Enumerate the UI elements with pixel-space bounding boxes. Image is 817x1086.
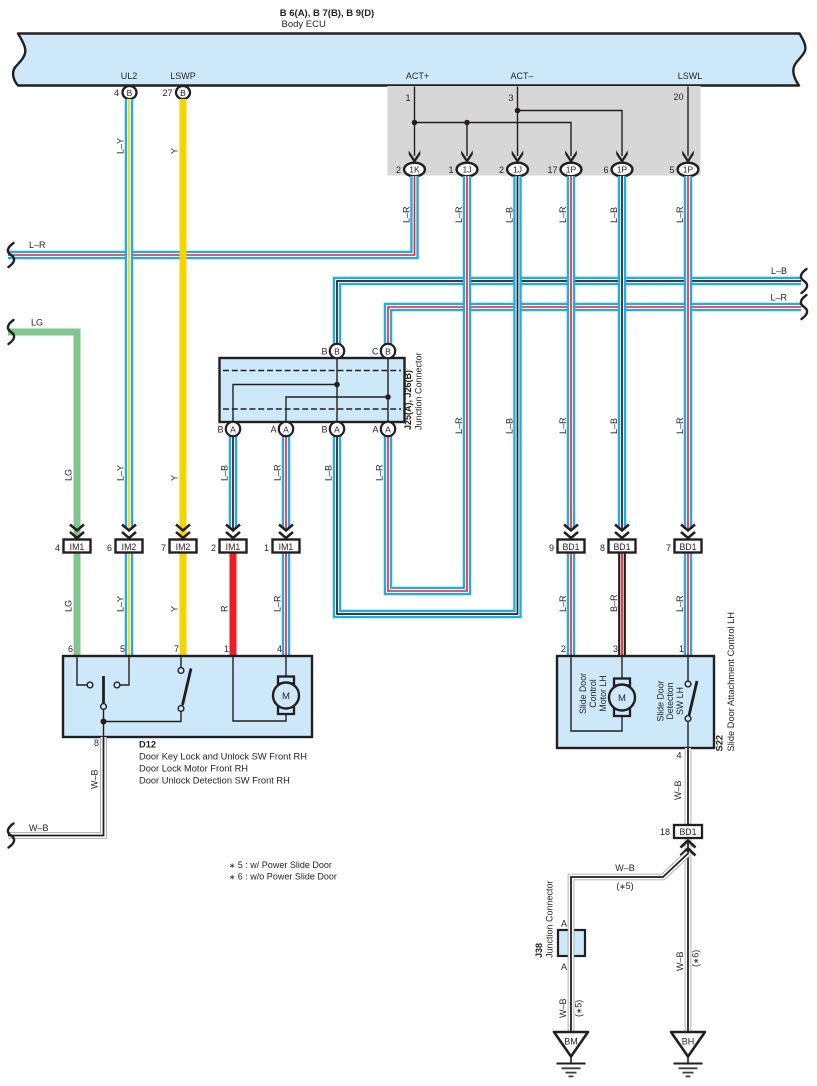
label LG above IM1 xyxy=(64,469,74,481)
label W-B horizontal bottom left xyxy=(29,823,49,833)
svg-text:L–R: L–R xyxy=(29,240,46,250)
junction bottom connector A (A) left xyxy=(270,422,293,436)
svg-text:M: M xyxy=(618,693,626,704)
svg-text:B: B xyxy=(321,425,327,435)
S22 pin number 3 xyxy=(613,644,618,654)
break symbol left LG xyxy=(8,320,14,344)
label L-Y above IM2 xyxy=(116,465,126,481)
wire L-R junction connector to IM1 pin1 xyxy=(282,436,291,529)
svg-text:L–B: L–B xyxy=(324,465,334,481)
ground BM bars xyxy=(557,1064,586,1077)
svg-text:1P: 1P xyxy=(683,165,694,175)
svg-text:LG: LG xyxy=(31,318,43,328)
svg-text:L–R: L–R xyxy=(375,464,385,481)
svg-text:A: A xyxy=(372,425,378,435)
svg-text:IM2: IM2 xyxy=(176,542,191,552)
wire L-B from 1P pin6 down to BD1 xyxy=(618,176,627,529)
svg-text:A: A xyxy=(561,919,567,929)
S22 switch label line1 xyxy=(656,680,666,721)
junction internal branch to pin B(A) xyxy=(233,385,337,430)
svg-text:A: A xyxy=(561,962,567,972)
D12 detection switch lever xyxy=(183,669,192,706)
pin name UL2 xyxy=(121,71,138,81)
svg-text:L–R: L–R xyxy=(770,293,787,303)
svg-text:Control: Control xyxy=(588,679,598,707)
svg-text:L–Y: L–Y xyxy=(116,465,126,481)
svg-text:UL2: UL2 xyxy=(121,71,138,81)
label LG left xyxy=(31,318,43,328)
svg-text:L–R: L–R xyxy=(558,595,568,612)
svg-text:∗ 5 : w/ Power Slide Door: ∗ 5 : w/ Power Slide Door xyxy=(229,860,332,870)
svg-text:Slide Door: Slide Door xyxy=(656,680,666,721)
svg-text:A: A xyxy=(385,424,391,434)
S22 detection switch lower contact xyxy=(685,716,691,722)
connector IM2 pin7 xyxy=(161,525,197,554)
svg-text:SW LH: SW LH xyxy=(675,687,685,715)
svg-text:1: 1 xyxy=(679,644,684,654)
S22 switch label line2 xyxy=(665,682,675,719)
ground BH stub xyxy=(687,1057,689,1064)
svg-text:B: B xyxy=(127,88,133,98)
svg-text:L–B: L–B xyxy=(609,207,619,223)
D12 pin7 internal lead xyxy=(180,657,182,668)
S22 pin2 internal lead to motor xyxy=(571,657,622,731)
svg-text:W–B: W–B xyxy=(675,951,685,971)
svg-text:5: 5 xyxy=(120,644,125,654)
connector BD1 pin8 xyxy=(600,525,636,554)
J38 junction connector box xyxy=(558,930,585,956)
label L-B right xyxy=(771,266,787,276)
S22 pin number 1 xyxy=(679,644,684,654)
svg-text:Junction Connector: Junction Connector xyxy=(414,352,424,430)
svg-text:1: 1 xyxy=(224,644,229,654)
S22 switch label line3 xyxy=(675,687,685,715)
svg-text:4: 4 xyxy=(676,751,681,761)
svg-text:∗ 6 : w/o Power Slide Door: ∗ 6 : w/o Power Slide Door xyxy=(229,872,337,882)
S22 pin3 internal lead xyxy=(621,657,623,679)
up chevron into BD1 pin18 xyxy=(681,841,696,856)
label A below J38 xyxy=(561,962,567,972)
svg-text:4: 4 xyxy=(277,644,282,654)
svg-text:M: M xyxy=(282,691,290,702)
label (*5) right of BM wire xyxy=(574,1000,584,1017)
gray box pin number 1 (ACT+) xyxy=(405,93,410,103)
svg-text:6: 6 xyxy=(68,644,73,654)
D12 key switch pole contact xyxy=(101,704,107,710)
D12 detection switch upper contact xyxy=(178,668,184,674)
wire L-Y from connector B pin4 down xyxy=(125,99,134,529)
label LG below IM1 xyxy=(64,600,74,612)
junction internal wire C-A xyxy=(387,351,389,429)
svg-text:L–R: L–R xyxy=(402,206,412,223)
svg-text:ACT–: ACT– xyxy=(510,71,533,81)
D12 pin number 6 xyxy=(68,644,73,654)
svg-text:6: 6 xyxy=(603,165,608,175)
svg-text:W–B: W–B xyxy=(615,863,635,873)
svg-text:Door Key Lock and Unlock SW Fr: Door Key Lock and Unlock SW Front RH xyxy=(139,752,307,762)
D12 pin number 1 xyxy=(224,644,229,654)
label L-R below BD1 pin7 xyxy=(675,595,685,612)
svg-text:L–R: L–R xyxy=(675,206,685,223)
label W-B left of BH wire xyxy=(675,951,685,971)
wire L-R horizontal from 1K to left edge break xyxy=(8,176,415,255)
label L-B col 1J2 xyxy=(505,207,515,223)
svg-text:Motor LH: Motor LH xyxy=(598,675,608,711)
svg-text:W–B: W–B xyxy=(29,823,49,833)
label A above J38 xyxy=(561,919,567,929)
label B-R below BD1 pin8 xyxy=(609,594,619,612)
svg-text:Body ECU: Body ECU xyxy=(282,19,326,30)
arrow into 1K xyxy=(409,150,421,163)
D12 key switch contact left xyxy=(87,682,93,688)
label J25(A), J26(B) xyxy=(403,370,413,430)
label L-R col 1K xyxy=(402,206,412,223)
svg-text:L–R: L–R xyxy=(558,417,568,434)
D12 motor brush top xyxy=(278,677,294,684)
svg-text:L–B: L–B xyxy=(771,266,787,276)
label L-B junction U wire xyxy=(324,465,334,481)
svg-text:1: 1 xyxy=(405,93,410,103)
svg-text:L–Y: L–Y xyxy=(116,138,126,154)
arrow into 1J pin1 xyxy=(461,150,473,163)
D12 pin number 8 xyxy=(94,738,99,748)
svg-text:LSWP: LSWP xyxy=(170,71,196,81)
svg-text:ACT+: ACT+ xyxy=(406,71,429,81)
S22 detection switch lever xyxy=(689,681,697,716)
label Y upper xyxy=(170,148,180,154)
wire ACT+ stem xyxy=(414,87,416,157)
wire L-R below BD1 to S22 pin2 xyxy=(567,552,576,657)
svg-text:Door Unlock Detection SW Front: Door Unlock Detection SW Front RH xyxy=(139,776,290,786)
label W-B branch horizontal xyxy=(615,863,635,873)
svg-text:B: B xyxy=(217,425,223,435)
svg-text:W–B: W–B xyxy=(90,769,100,789)
svg-text:20: 20 xyxy=(673,92,683,102)
S22 designation label xyxy=(715,612,737,752)
gray connector region xyxy=(388,86,701,176)
svg-text:7: 7 xyxy=(666,543,671,553)
junction connector J25/J26 box xyxy=(220,358,405,422)
D12 internal junction dot xyxy=(101,719,107,725)
svg-text:Y: Y xyxy=(170,148,180,154)
svg-text:B: B xyxy=(180,88,186,98)
svg-text:1P: 1P xyxy=(566,165,577,175)
svg-text:5: 5 xyxy=(669,165,674,175)
ground BH bars xyxy=(674,1064,703,1077)
label L-R mid col 1P5 xyxy=(675,417,685,434)
connector 1P pin6 xyxy=(603,163,632,177)
svg-text:LSWL: LSWL xyxy=(678,71,703,81)
svg-text:A: A xyxy=(283,424,289,434)
svg-text:2: 2 xyxy=(499,165,504,175)
break symbol left W-B xyxy=(8,824,14,848)
svg-text:1: 1 xyxy=(264,543,269,553)
break symbol left L-R xyxy=(8,243,14,267)
junction dot branch 1J xyxy=(464,120,470,126)
svg-text:J25(A), J26(B): J25(A), J26(B) xyxy=(403,370,413,430)
D12 detection switch lower contact xyxy=(178,706,184,712)
svg-text:Y: Y xyxy=(170,606,180,612)
arrow into 1P pin5 xyxy=(682,150,694,163)
label L-R junction U wire xyxy=(375,464,385,481)
wire L-R from 1P pin5 down to BD1 xyxy=(684,176,693,529)
svg-text:L–R: L–R xyxy=(675,595,685,612)
wire Y from connector B pin27 down xyxy=(180,99,187,540)
label W-B rotated at D12 pin8 xyxy=(90,769,100,789)
pin 4 connector B (UL2) xyxy=(114,86,137,99)
svg-text:1J: 1J xyxy=(513,165,522,175)
D12 pin1 internal lead to motor xyxy=(233,657,286,721)
svg-text:W–B: W–B xyxy=(558,998,568,1018)
label L-B mid col 1P6 xyxy=(609,418,619,434)
title Body ECU designators xyxy=(280,8,374,30)
connector BD1 pin7 xyxy=(666,525,702,554)
wire L-R U-shape from 1J pin1 to junction connector xyxy=(388,176,467,591)
break symbol right L-B xyxy=(801,269,807,293)
junction bottom connector B (A) right xyxy=(321,422,344,436)
label L-R below IM1 xyxy=(273,595,283,612)
svg-text:(∗5): (∗5) xyxy=(574,1000,584,1017)
wire L-R below BD1 to S22 pin1 xyxy=(684,552,693,657)
D12 pin6 internal lead xyxy=(77,657,87,685)
label W-B above BD1 pin18 xyxy=(673,780,683,800)
S22 motor M xyxy=(609,685,635,711)
connector 1P pin17 xyxy=(547,163,581,177)
arrow into 1P pin6 xyxy=(616,150,628,163)
svg-text:3: 3 xyxy=(613,644,618,654)
D12 motor M xyxy=(273,683,299,709)
note *6 w/o Power Slide Door xyxy=(229,872,337,882)
wire Y below IM2 to D12 pin7 xyxy=(180,551,187,657)
arrow into 1P pin17 xyxy=(565,150,577,163)
connector IM1 pin1 xyxy=(264,525,300,554)
S22 box xyxy=(557,656,714,748)
arrow into 1J pin2 xyxy=(512,150,524,163)
S22 pin number 2 xyxy=(561,644,566,654)
svg-text:7: 7 xyxy=(161,543,166,553)
label L-B col 1P6 xyxy=(609,207,619,223)
S22 motor label line1 xyxy=(578,673,588,714)
label L-R mid col 1P17 xyxy=(558,417,568,434)
label L-Y upper xyxy=(116,138,126,154)
svg-text:18: 18 xyxy=(660,827,670,837)
svg-text:2: 2 xyxy=(561,644,566,654)
wire L-R from 1P pin17 down to BD1 xyxy=(567,176,576,529)
label L-R mid col 1J1 xyxy=(454,417,464,434)
D12 pin number 4 xyxy=(277,644,282,654)
label L-R right xyxy=(770,293,787,303)
pin name ACT- xyxy=(510,71,533,81)
D12 box xyxy=(63,656,312,737)
label L-R col 1P17 xyxy=(558,206,568,223)
junction bottom connector B (A) left xyxy=(217,422,240,436)
svg-text:BD1: BD1 xyxy=(562,542,579,552)
svg-text:L–R: L–R xyxy=(273,595,283,612)
wire ACT- stem xyxy=(517,87,519,157)
junction bottom connector A (A) right xyxy=(372,422,395,436)
D12 internal wire to unlock detection switch xyxy=(104,712,182,722)
connector 1J pin2 xyxy=(499,163,528,177)
wire branch to 1J pin1 xyxy=(466,123,468,157)
connector IM1 pin4 xyxy=(55,525,91,554)
D12 motor brush bottom xyxy=(278,707,294,714)
svg-text:Door Lock Motor Front RH: Door Lock Motor Front RH xyxy=(139,764,248,774)
ground BM triangle xyxy=(554,1032,588,1057)
S22 pin number 4 xyxy=(676,751,681,761)
label L-R col 1P5 xyxy=(675,206,685,223)
label J38 xyxy=(534,943,544,958)
ground BM stub xyxy=(570,1057,572,1064)
wire L-B U-shape from 1J pin2 to junction connector xyxy=(337,176,518,614)
svg-text:R: R xyxy=(220,605,230,612)
svg-text:LG: LG xyxy=(64,469,74,481)
D12 designation label xyxy=(139,740,307,786)
svg-text:Slide Door Attachment Control: Slide Door Attachment Control LH xyxy=(726,612,736,752)
svg-text:B: B xyxy=(385,346,391,356)
svg-text:C: C xyxy=(372,347,379,357)
svg-text:27: 27 xyxy=(162,88,172,98)
svg-text:A: A xyxy=(230,424,236,434)
connector 1K pin2 xyxy=(396,163,425,177)
wire L-B junction connector to IM1 pin2 xyxy=(229,436,238,529)
svg-text:Slide Door: Slide Door xyxy=(578,673,588,714)
S22 pin1 internal lead xyxy=(687,657,689,681)
svg-text:A: A xyxy=(334,424,340,434)
junction internal dot 1 xyxy=(334,382,340,388)
D12 key switch lever xyxy=(102,676,105,703)
svg-text:L–R: L–R xyxy=(454,417,464,434)
svg-text:4: 4 xyxy=(114,88,119,98)
svg-text:L–B: L–B xyxy=(505,207,515,223)
gray box pin number 3 (ACT-) xyxy=(508,93,513,103)
svg-text:2: 2 xyxy=(396,165,401,175)
label Junction Connector (J38) xyxy=(545,880,555,958)
junction box dashed line upper xyxy=(223,370,401,372)
connector 1J pin1 xyxy=(448,163,477,177)
S22 motor label line3 xyxy=(598,675,608,711)
svg-text:7: 7 xyxy=(174,644,179,654)
label W-B left of BM wire xyxy=(558,998,568,1018)
label Junction Connector (J25/J26) xyxy=(414,352,424,430)
D12 pin5 internal lead xyxy=(121,657,130,685)
label L-R left xyxy=(29,240,46,250)
svg-text:S22: S22 xyxy=(715,735,725,752)
pin 27 connector B (LSWP) xyxy=(162,86,190,99)
svg-text:Junction Connector: Junction Connector xyxy=(545,880,555,958)
wire B-R below BD1 to S22 pin3 xyxy=(618,552,626,657)
svg-text:(∗6): (∗6) xyxy=(691,950,701,967)
wire W-B from chevron down to BH ground xyxy=(685,840,692,1033)
svg-text:LG: LG xyxy=(64,600,74,612)
wire LSWL stem xyxy=(687,87,689,157)
label (*6) right of BH wire xyxy=(691,950,701,967)
D12 pin number 5 xyxy=(120,644,125,654)
svg-text:W–B: W–B xyxy=(673,780,683,800)
svg-text:L–R: L–R xyxy=(675,417,685,434)
wire ACT- branch horizontal xyxy=(518,111,623,157)
junction dot ACT- xyxy=(515,108,521,114)
note *5 w/ Power Slide Door xyxy=(229,860,332,870)
junction internal wire B-B xyxy=(336,351,338,429)
svg-text:B: B xyxy=(321,347,327,357)
wire L-B horizontal to right edge break xyxy=(337,281,801,345)
svg-text:6: 6 xyxy=(107,543,112,553)
svg-text:L–R: L–R xyxy=(558,206,568,223)
svg-text:BH: BH xyxy=(682,1037,695,1047)
label L-B above IM1 pin2 xyxy=(220,465,230,481)
svg-text:L–R: L–R xyxy=(273,464,283,481)
S22 motor label line2 xyxy=(588,679,598,707)
label Y above IM2 xyxy=(170,475,180,481)
svg-text:J38: J38 xyxy=(534,943,544,958)
label L-R above IM1 pin1 xyxy=(273,464,283,481)
junction internal branch to pin A(A) xyxy=(286,397,388,429)
svg-text:Detection: Detection xyxy=(665,682,675,719)
pin name ACT+ xyxy=(406,71,429,81)
S22 switch lead to pin4 xyxy=(687,722,689,749)
svg-text:B: B xyxy=(334,346,340,356)
D12 key switch contact right xyxy=(114,682,120,688)
svg-text:8: 8 xyxy=(94,738,99,748)
junction box dashed line lower xyxy=(223,408,401,410)
svg-text:(∗5): (∗5) xyxy=(616,881,633,891)
svg-text:IM1: IM1 xyxy=(279,542,294,552)
svg-text:D12: D12 xyxy=(139,740,156,750)
ground BH triangle xyxy=(671,1032,705,1057)
junction top connector C (B) xyxy=(372,344,395,358)
svg-text:4: 4 xyxy=(55,543,60,553)
svg-text:B–R: B–R xyxy=(609,594,619,612)
wire L-R below IM1 to D12 pin4 xyxy=(282,552,291,657)
svg-text:17: 17 xyxy=(547,165,557,175)
svg-text:3: 3 xyxy=(508,93,513,103)
wire LG from left edge to D12 pin6 xyxy=(8,332,77,657)
wire W-B from D12 pin8 to left edge xyxy=(8,737,104,836)
S22 motor brush bottom xyxy=(614,709,630,716)
D12 pole lead to junction dot xyxy=(103,710,105,738)
svg-text:IM2: IM2 xyxy=(122,542,137,552)
svg-text:Y: Y xyxy=(170,475,180,481)
svg-text:BM: BM xyxy=(564,1037,578,1047)
svg-text:1K: 1K xyxy=(409,165,420,175)
wire R below IM1 to D12 pin1 xyxy=(230,552,237,657)
svg-text:IM1: IM1 xyxy=(226,542,241,552)
label (*5) branch horizontal xyxy=(616,881,633,891)
junction top connector B (B) xyxy=(321,344,344,358)
label L-Y below IM2 xyxy=(116,596,126,612)
svg-text:IM1: IM1 xyxy=(70,542,85,552)
wire L-R horizontal to right edge break xyxy=(388,307,801,345)
svg-text:BD1: BD1 xyxy=(679,542,696,552)
S22 detection switch upper contact xyxy=(685,681,691,687)
label R below IM1 xyxy=(220,605,230,612)
pin name LSWP xyxy=(170,71,196,81)
svg-text:BD1: BD1 xyxy=(679,827,696,837)
connector 1P pin5 xyxy=(669,163,698,177)
svg-text:1P: 1P xyxy=(617,165,628,175)
wire ACT+ branch horizontal xyxy=(415,123,572,157)
svg-text:L–R: L–R xyxy=(454,206,464,223)
break symbol right L-R xyxy=(801,295,807,319)
connector IM1 pin2 xyxy=(211,525,247,554)
svg-text:L–Y: L–Y xyxy=(116,596,126,612)
S22 motor brush top xyxy=(614,679,630,686)
label L-R col 1J1 xyxy=(454,206,464,223)
gray box pin number 20 (LSWL) xyxy=(673,92,683,102)
svg-text:B 6(A), B 7(B), B 9(D): B 6(A), B 7(B), B 9(D) xyxy=(280,8,374,19)
svg-text:1J: 1J xyxy=(463,165,472,175)
connector BD1 pin18 xyxy=(660,825,702,838)
